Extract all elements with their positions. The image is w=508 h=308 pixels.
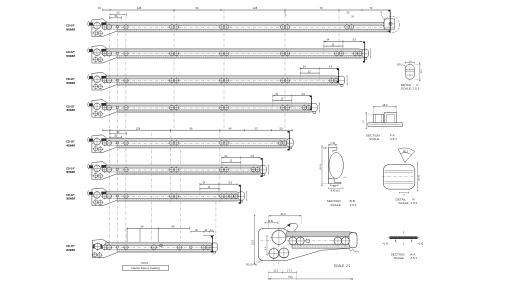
svg-text:2.5:1: 2.5:1 xyxy=(411,201,418,205)
svg-text:R1.5 (4×): R1.5 (4×) xyxy=(247,263,258,266)
svg-text:450MM: 450MM xyxy=(66,108,76,112)
svg-text:7.30: 7.30 xyxy=(330,142,335,145)
svg-text:6×5.0: 6×5.0 xyxy=(141,261,148,265)
svg-text:(10.9): (10.9) xyxy=(418,175,420,181)
svg-text:R0.3: R0.3 xyxy=(403,152,409,154)
svg-text:2.5:1: 2.5:1 xyxy=(390,137,397,141)
svg-text:2.5:1: 2.5:1 xyxy=(410,256,417,260)
svg-text:128: 128 xyxy=(137,6,142,10)
svg-text:350MM: 350MM xyxy=(66,170,76,174)
svg-text:SCALE: SCALE xyxy=(369,137,379,141)
svg-text:(31.0): (31.0) xyxy=(320,164,322,170)
svg-text:300MM: 300MM xyxy=(66,197,76,201)
svg-text:2:1: 2:1 xyxy=(346,264,351,268)
svg-text:SCALE: SCALE xyxy=(331,203,341,207)
svg-text:600MM: 600MM xyxy=(66,28,76,32)
svg-text:Interior Epoxy Coating: Interior Epoxy Coating xyxy=(131,266,160,270)
svg-text:31.5: 31.5 xyxy=(250,239,254,245)
svg-text:SCALE: SCALE xyxy=(401,87,411,91)
svg-text:R0.3: R0.3 xyxy=(397,63,403,66)
svg-text:SCALE: SCALE xyxy=(394,256,404,260)
svg-text:12.3: 12.3 xyxy=(273,269,278,272)
svg-text:=1.42: =1.42 xyxy=(383,243,390,245)
svg-text:2.5:1: 2.5:1 xyxy=(350,203,357,207)
svg-text:18.3: 18.3 xyxy=(382,103,388,107)
svg-text:17.3: 17.3 xyxy=(287,269,292,272)
svg-text:400MM: 400MM xyxy=(66,144,76,148)
svg-text:500MM: 500MM xyxy=(66,81,76,85)
svg-text:550MM: 550MM xyxy=(66,54,76,58)
svg-text:SCALE: SCALE xyxy=(334,264,344,268)
svg-text:8.40 ±0.1: 8.40 ±0.1 xyxy=(331,191,341,193)
svg-text:=1.42: =1.42 xyxy=(417,243,424,245)
svg-text:250MM: 250MM xyxy=(66,248,76,252)
svg-text:2.5:1: 2.5:1 xyxy=(412,87,419,91)
svg-text:128: 128 xyxy=(253,6,258,10)
svg-text:75.0: 75.0 xyxy=(288,276,293,279)
svg-text:128: 128 xyxy=(136,126,141,130)
svg-text:34.5: 34.5 xyxy=(280,212,286,216)
svg-text:SCALE: SCALE xyxy=(399,201,409,205)
svg-text:(4.5): (4.5) xyxy=(268,220,273,223)
